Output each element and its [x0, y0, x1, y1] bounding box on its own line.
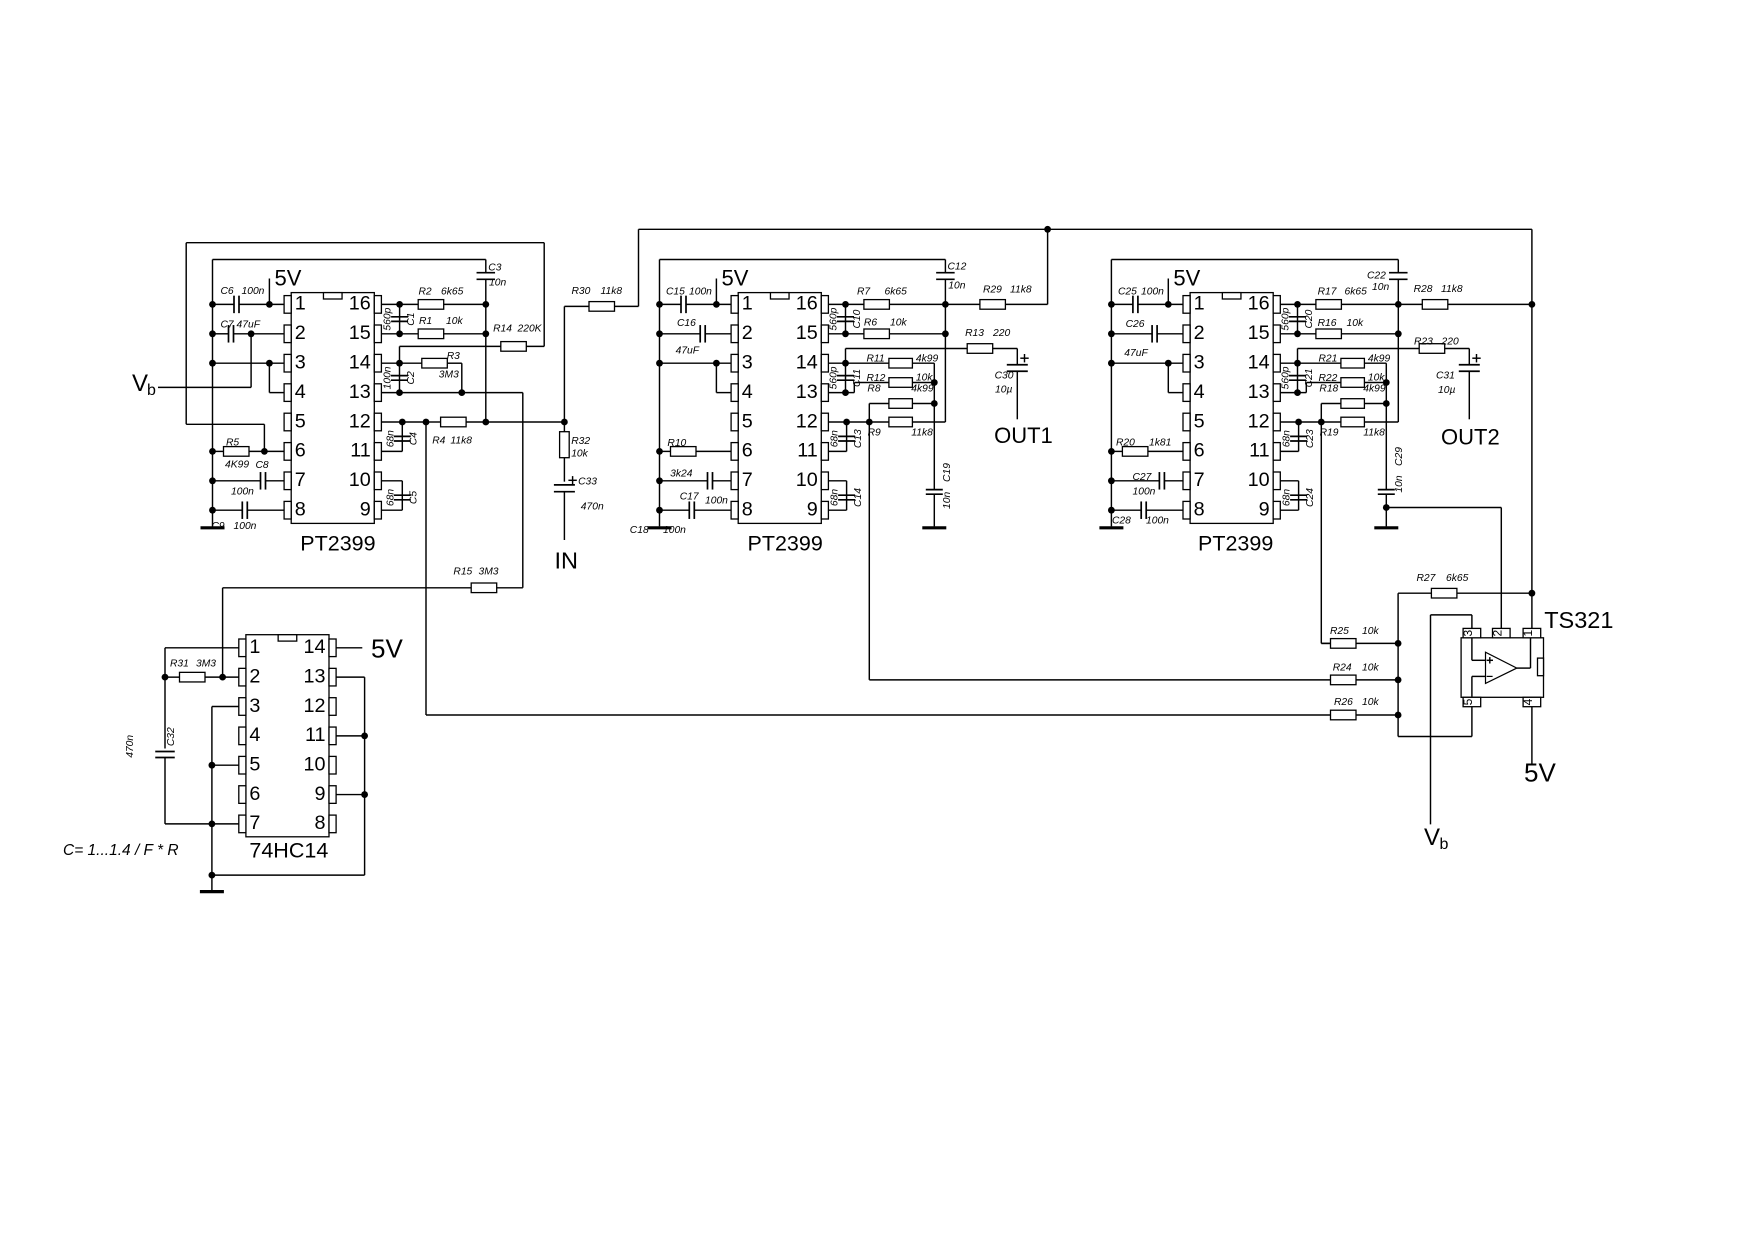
svg-text:6: 6	[295, 440, 306, 462]
svg-text:8: 8	[1194, 499, 1205, 521]
capacitor C31 10u (electrolytic)	[1459, 365, 1480, 372]
resistor R5 4K99	[213, 450, 285, 452]
resistor R13 220	[846, 349, 1018, 365]
capacitor C2 100n	[399, 363, 401, 392]
svg-text:3M3: 3M3	[439, 370, 459, 381]
capacitor C26 47uF	[1152, 325, 1157, 343]
svg-text:7: 7	[295, 469, 306, 491]
junction pin12 block1	[399, 419, 406, 426]
svg-text:C19: C19	[942, 463, 953, 482]
svg-text:1k81: 1k81	[1149, 438, 1171, 449]
svg-text:47uF: 47uF	[676, 346, 700, 357]
svg-text:12: 12	[796, 410, 818, 432]
svg-text:R32: R32	[571, 436, 590, 447]
resistor R31 3M3	[165, 676, 239, 678]
junction pin16 block3	[1294, 301, 1301, 308]
wire pin13 row block1	[381, 393, 522, 588]
svg-text:R31: R31	[170, 659, 189, 670]
svg-text:OUT2: OUT2	[1441, 425, 1500, 450]
wire pin14 row block3	[1280, 363, 1386, 382]
svg-text:560p: 560p	[829, 307, 840, 330]
resistor R15 3M3	[223, 588, 523, 677]
wire pin12 to R26 (long)	[426, 422, 1331, 715]
svg-text:R15: R15	[453, 567, 472, 578]
wire pin2 row block1	[213, 333, 285, 335]
ground C19	[922, 526, 946, 529]
svg-text:11k8: 11k8	[911, 428, 933, 439]
junction dots rail block1	[209, 301, 216, 514]
svg-text:5: 5	[1194, 410, 1205, 432]
wire pin16 row block2	[828, 303, 945, 305]
wire 5V TS321	[1531, 707, 1533, 764]
svg-text:R14: R14	[493, 324, 512, 335]
resistor R17 6k65	[1316, 300, 1342, 310]
svg-text:15: 15	[1248, 322, 1270, 344]
svg-text:6k65: 6k65	[885, 287, 908, 298]
svg-text:7: 7	[1194, 469, 1205, 491]
IC U3 PT2399 (block3)	[1190, 293, 1273, 524]
capacitor C20 560p	[1297, 304, 1299, 333]
svg-text:8: 8	[742, 499, 753, 521]
svg-text:560p: 560p	[383, 307, 394, 330]
svg-text:100n: 100n	[705, 496, 728, 507]
svg-text:6: 6	[249, 783, 260, 805]
resistor R28 11k8	[1398, 303, 1532, 305]
resistor R12 10k	[846, 383, 935, 404]
op-amp internal wires	[1472, 638, 1531, 696]
capacitor C15 100n	[681, 296, 686, 314]
svg-text:68n: 68n	[830, 430, 841, 447]
svg-text:2: 2	[295, 322, 306, 344]
svg-text:C= 1...1.4 / F * R: C= 1...1.4 / F * R	[63, 842, 179, 859]
svg-text:470n: 470n	[581, 502, 604, 513]
junction pin6 block1	[261, 448, 268, 455]
svg-text:10k: 10k	[446, 316, 463, 327]
capacitor C14 68n	[828, 481, 846, 510]
wire block2 inner top	[660, 259, 946, 261]
svg-text:100n: 100n	[234, 521, 257, 532]
capacitor C4 68n	[381, 422, 402, 451]
svg-text:11: 11	[797, 440, 818, 462]
svg-text:4k99: 4k99	[916, 354, 939, 365]
resistor R2 6k65	[400, 303, 486, 305]
svg-text:68n: 68n	[1282, 489, 1293, 506]
wire Vb to TS321 pin3	[1431, 615, 1472, 825]
svg-text:3k24: 3k24	[670, 469, 693, 480]
resistor R32 10k	[563, 422, 565, 482]
junction pin7	[209, 821, 216, 828]
svg-text:C25: C25	[1118, 287, 1137, 298]
svg-text:68n: 68n	[385, 489, 396, 506]
junction R31 right / pin2	[219, 674, 226, 681]
svg-text:470n: 470n	[125, 735, 136, 758]
svg-text:6: 6	[1194, 440, 1205, 462]
capacitor C17 100n	[660, 480, 732, 482]
svg-text:560p: 560p	[829, 366, 840, 389]
svg-text:3: 3	[1194, 352, 1205, 374]
svg-text:220: 220	[1441, 337, 1459, 348]
svg-text:C30: C30	[995, 371, 1014, 382]
svg-text:14: 14	[303, 636, 325, 658]
svg-text:10µ: 10µ	[1438, 385, 1455, 396]
capacitor C12 10n	[944, 260, 946, 423]
svg-text:R6: R6	[864, 318, 877, 329]
svg-text:5V: 5V	[1173, 266, 1200, 291]
wire 5V rail block3	[1110, 260, 1112, 527]
svg-text:2: 2	[1194, 322, 1205, 344]
svg-text:C31: C31	[1436, 371, 1455, 382]
svg-text:R26: R26	[1334, 697, 1353, 708]
wire 5V rail block1	[212, 260, 214, 527]
svg-text:100n: 100n	[1146, 516, 1169, 527]
svg-text:14: 14	[349, 352, 371, 374]
capacitor C5 68n	[381, 481, 402, 510]
svg-text:C24: C24	[1305, 488, 1316, 507]
resistor R8 4k99	[869, 404, 934, 423]
junction pin15 block3	[1294, 330, 1301, 337]
junction pin14 block2	[842, 360, 849, 367]
svg-text:10n: 10n	[1372, 282, 1389, 293]
junction pin16 block2	[842, 301, 849, 308]
wire pin12 row block1	[381, 421, 564, 423]
wire pin12 row block3	[1280, 421, 1398, 423]
svg-text:C9: C9	[212, 521, 225, 532]
junction pin13 block1	[396, 389, 403, 396]
svg-text:11k8: 11k8	[601, 286, 623, 297]
svg-text:1: 1	[295, 293, 306, 315]
svg-text:4k99: 4k99	[911, 384, 934, 395]
wire pin2 row block3	[1111, 333, 1183, 335]
svg-text:560p: 560p	[1281, 307, 1292, 330]
junction R27/output	[1529, 590, 1536, 597]
svg-text:4k99: 4k99	[1363, 384, 1386, 395]
svg-text:PT2399: PT2399	[1198, 532, 1273, 556]
resistor R29 11k8	[945, 229, 1047, 304]
wire block1 inner top (C3 net)	[213, 259, 486, 261]
wire 5V rail block2	[659, 260, 661, 527]
svg-text:C16: C16	[677, 318, 696, 329]
svg-text:b: b	[1440, 836, 1449, 853]
svg-text:C20: C20	[1304, 309, 1315, 328]
svg-text:9: 9	[314, 783, 325, 805]
svg-text:13: 13	[796, 381, 818, 403]
svg-text:12: 12	[303, 695, 325, 717]
svg-text:10: 10	[1248, 469, 1270, 491]
wire main top bus	[639, 228, 1532, 230]
svg-text:10n: 10n	[489, 278, 506, 289]
svg-text:5V: 5V	[275, 266, 302, 291]
svg-text:2: 2	[249, 665, 260, 687]
capacitor C24 68n	[1280, 481, 1298, 510]
junction stack right block2	[931, 379, 938, 386]
svg-text:V: V	[1424, 824, 1440, 851]
svg-text:10k: 10k	[890, 318, 907, 329]
svg-text:8: 8	[295, 499, 306, 521]
capacitor C16 47uF	[700, 325, 705, 343]
junction pin13 block2	[842, 389, 849, 396]
svg-text:12: 12	[1248, 410, 1270, 432]
capacitor C19 10n	[933, 404, 935, 527]
svg-text:4: 4	[1194, 381, 1205, 403]
svg-text:R11: R11	[867, 354, 885, 365]
svg-text:4k99: 4k99	[1368, 354, 1391, 365]
svg-text:R18: R18	[1319, 384, 1338, 395]
wire block1 outer loop (pin6 net)	[186, 243, 544, 452]
junction R2/C3	[482, 301, 489, 308]
capacitor C33 470n (electrolytic)	[554, 485, 575, 492]
capacitor C32 470n	[165, 677, 212, 824]
svg-text:11k8: 11k8	[450, 436, 472, 447]
junction R1/C3	[482, 330, 489, 337]
junction pin14 block1	[396, 360, 403, 367]
svg-text:10k: 10k	[1362, 663, 1379, 674]
resistor R7 6k65	[864, 300, 890, 310]
svg-text:R3: R3	[447, 351, 460, 362]
svg-text:100n: 100n	[383, 366, 394, 389]
capacitor C8 100n	[213, 480, 285, 482]
svg-text:100n: 100n	[231, 487, 254, 498]
wire block3 inner top	[1111, 259, 1398, 261]
svg-text:9: 9	[1259, 499, 1270, 521]
capacitor C28 100n	[1111, 509, 1183, 511]
svg-text:3M3: 3M3	[479, 567, 499, 578]
svg-text:5: 5	[1461, 698, 1475, 705]
svg-text:7: 7	[249, 812, 260, 834]
junction R26	[1395, 712, 1402, 719]
svg-text:2: 2	[742, 322, 753, 344]
svg-text:12: 12	[349, 410, 371, 432]
svg-text:3: 3	[249, 695, 260, 717]
svg-text:5V: 5V	[1524, 758, 1556, 788]
ground 74HC14	[211, 875, 213, 890]
resistor R24 10k	[1356, 679, 1398, 681]
resistor R21 4k99	[1341, 358, 1365, 368]
junction pin13 block3	[1294, 389, 1301, 396]
svg-text:10µ: 10µ	[995, 385, 1012, 396]
svg-text:R12: R12	[867, 373, 886, 384]
wire pin15 row block2	[828, 333, 945, 335]
svg-text:13: 13	[1248, 381, 1270, 403]
capacitor C29 10n	[1385, 404, 1387, 527]
resistor R16 10k	[1316, 329, 1342, 339]
svg-text:16: 16	[796, 293, 818, 315]
svg-text:R7: R7	[857, 287, 871, 298]
junction R24	[1395, 677, 1402, 684]
resistor R10 3k24	[660, 450, 732, 452]
svg-text:R20: R20	[1116, 438, 1135, 449]
capacitor C6 100n	[234, 296, 239, 314]
capacitor C11 560p	[845, 363, 847, 392]
svg-text:220K: 220K	[517, 324, 543, 335]
svg-text:100n: 100n	[1141, 287, 1164, 298]
svg-text:13: 13	[303, 665, 325, 687]
resistor R4 11k8	[441, 417, 467, 427]
svg-text:5: 5	[295, 410, 306, 432]
svg-text:11: 11	[350, 440, 371, 462]
svg-text:C22: C22	[1367, 271, 1386, 282]
svg-text:C4: C4	[409, 432, 420, 445]
svg-text:C15: C15	[666, 287, 685, 298]
svg-text:C3: C3	[488, 263, 501, 274]
junction C1	[396, 301, 403, 308]
svg-text:4: 4	[1521, 698, 1535, 705]
svg-text:10k: 10k	[1368, 373, 1385, 384]
svg-text:C8: C8	[256, 460, 269, 471]
svg-text:R21: R21	[1319, 354, 1338, 365]
resistor R18 4k99	[1321, 404, 1386, 423]
svg-text:R29: R29	[983, 285, 1002, 296]
wire top bus to TS321 pin1	[1531, 229, 1533, 628]
junction Vb/pin2	[248, 330, 255, 337]
svg-text:R2: R2	[419, 286, 432, 297]
junction dots rail block3	[1108, 301, 1115, 514]
svg-text:7: 7	[742, 469, 753, 491]
svg-text:16: 16	[349, 293, 371, 315]
junction pin3 block2	[713, 360, 720, 367]
svg-text:10n: 10n	[948, 281, 965, 292]
ground block3	[1099, 526, 1123, 529]
capacitor C9 100n	[213, 509, 285, 511]
svg-text:4: 4	[249, 724, 260, 746]
junction pin5	[209, 762, 216, 769]
svg-text:8: 8	[314, 812, 325, 834]
svg-text:10: 10	[349, 469, 371, 491]
svg-text:C32: C32	[166, 727, 177, 746]
capacitor C25 100n	[1133, 296, 1138, 314]
capacitor C3 10n	[485, 260, 487, 423]
svg-text:13: 13	[349, 381, 371, 403]
svg-text:TS321: TS321	[1544, 607, 1613, 633]
svg-text:68n: 68n	[830, 489, 841, 506]
svg-text:11k8: 11k8	[1363, 428, 1385, 439]
svg-text:100n: 100n	[242, 286, 265, 297]
wire pin12 row block2	[828, 421, 945, 423]
junction pin3 block3	[1165, 360, 1172, 367]
svg-text:PT2399: PT2399	[748, 532, 823, 556]
svg-text:C14: C14	[853, 488, 864, 507]
svg-text:10n: 10n	[1394, 475, 1405, 492]
svg-text:1: 1	[1521, 629, 1535, 636]
wire pin2 row block2	[660, 333, 732, 335]
svg-text:C29: C29	[1394, 447, 1405, 466]
svg-text:C13: C13	[853, 429, 864, 448]
svg-text:220: 220	[992, 328, 1010, 339]
svg-text:R19: R19	[1320, 428, 1339, 439]
IC U1 PT2399 (block1)	[291, 293, 374, 524]
5V supply block1	[266, 301, 273, 308]
svg-text:C12: C12	[948, 262, 967, 273]
svg-text:16: 16	[1248, 293, 1270, 315]
svg-text:10k: 10k	[1347, 318, 1364, 329]
ground block1	[201, 526, 225, 529]
svg-text:5: 5	[249, 754, 260, 776]
svg-text:11k8: 11k8	[1441, 284, 1463, 295]
capacitor C10 560p	[845, 304, 847, 333]
svg-text:C1: C1	[406, 313, 417, 326]
wire pin1 row block1	[213, 303, 285, 305]
resistor R6 10k	[864, 329, 890, 339]
svg-text:1: 1	[1194, 293, 1205, 315]
svg-text:100n: 100n	[1133, 487, 1156, 498]
svg-text:C7 47uF: C7 47uF	[221, 320, 261, 331]
wire pin14 row block2	[828, 363, 934, 382]
capacitor C22 10n	[1397, 260, 1399, 423]
wire summing bus to TS321 pin5	[1398, 593, 1472, 736]
svg-text:R4: R4	[432, 436, 445, 447]
IC U5 TS321	[1461, 638, 1543, 698]
junction stack right block3	[1383, 379, 1390, 386]
wire pin1 74HC14	[165, 648, 239, 677]
svg-text:R17: R17	[1318, 287, 1338, 298]
resistor R11 4k99	[889, 358, 913, 368]
junction pin12 block3	[1295, 419, 1302, 426]
svg-text:2: 2	[1491, 629, 1505, 636]
svg-text:C26: C26	[1126, 319, 1145, 330]
resistor R9 11k8	[889, 417, 913, 427]
svg-text:C10: C10	[852, 309, 863, 328]
junction pin11	[361, 732, 368, 739]
svg-text:14: 14	[796, 352, 818, 374]
capacitor C30 10u (electrolytic)	[1007, 365, 1028, 372]
svg-text:5V: 5V	[371, 634, 403, 664]
svg-text:R25: R25	[1330, 626, 1349, 637]
junction pin12 block2	[843, 419, 850, 426]
resistor R23 220	[1298, 349, 1470, 365]
junction pin3 block1	[266, 360, 273, 367]
svg-text:10n: 10n	[942, 492, 953, 509]
wire block2 pin12 to R24 (long)	[869, 422, 1330, 680]
svg-text:R1: R1	[419, 316, 432, 327]
svg-text:10k: 10k	[916, 373, 933, 384]
svg-text:R16: R16	[1318, 318, 1337, 329]
ground block2	[648, 526, 672, 529]
capacitor C27 100n	[1111, 480, 1183, 482]
svg-text:R23: R23	[1414, 337, 1433, 348]
op-amp triangle U5	[1486, 652, 1517, 683]
svg-text:R5: R5	[226, 438, 239, 449]
junction dots rail block2	[656, 301, 663, 514]
5V supply block3	[1165, 301, 1172, 308]
resistor R20 1k81	[1111, 450, 1183, 452]
capacitor C13 68n	[828, 422, 846, 451]
wire pin3 row block3	[1111, 363, 1183, 392]
svg-text:11k8: 11k8	[1010, 285, 1032, 296]
svg-text:V: V	[132, 370, 148, 397]
svg-text:C5: C5	[409, 491, 420, 504]
svg-text:11: 11	[305, 724, 326, 746]
wire pin13 row block2	[828, 392, 845, 394]
svg-text:C2: C2	[406, 371, 417, 384]
svg-text:R30: R30	[572, 286, 591, 297]
svg-text:6k65: 6k65	[1345, 287, 1368, 298]
svg-text:9: 9	[807, 499, 818, 521]
svg-text:10k: 10k	[1362, 626, 1379, 637]
svg-text:C11: C11	[852, 369, 863, 387]
junction pin15 block2	[842, 330, 849, 337]
svg-text:47uF: 47uF	[1124, 348, 1148, 359]
svg-text:6k65: 6k65	[1446, 573, 1469, 584]
svg-text:3: 3	[1461, 629, 1475, 636]
resistor R30 11k8	[564, 229, 638, 422]
svg-text:R27: R27	[1417, 573, 1437, 584]
svg-text:68n: 68n	[385, 430, 396, 447]
svg-text:R13: R13	[965, 328, 984, 339]
svg-text:1: 1	[742, 293, 753, 315]
junction ground 74HC14	[209, 872, 216, 879]
svg-text:C33: C33	[578, 477, 597, 488]
capacitor C7 47uF	[229, 325, 234, 343]
resistor R19 11k8	[1341, 417, 1365, 427]
